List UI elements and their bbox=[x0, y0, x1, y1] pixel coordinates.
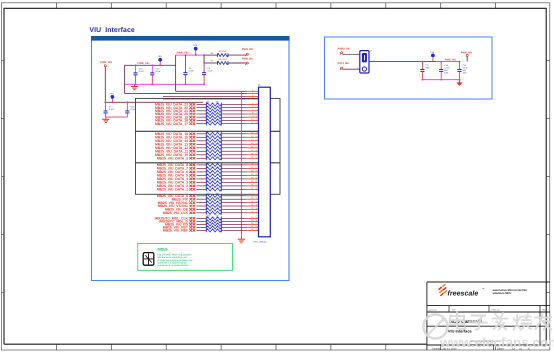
svg-text:FOLD-EDGE: Place bulk jumpers: FOLD-EDGE: Place bulk jumpers bbox=[157, 254, 192, 257]
resistor RN5.2 bbox=[206, 220, 221, 223]
resistor RN3.1 bbox=[206, 163, 221, 166]
capacitor C13 bbox=[151, 65, 153, 73]
resistor RN2.3 bbox=[206, 139, 221, 142]
net mark bbox=[189, 195, 195, 197]
wire bbox=[197, 123, 207, 125]
svg-text:PWR3_BK: PWR3_BK bbox=[338, 48, 350, 51]
net mark bbox=[189, 201, 195, 203]
wire bbox=[197, 181, 207, 183]
pin 13 bbox=[247, 136, 259, 138]
wire bbox=[197, 110, 207, 112]
pin 22 bbox=[247, 171, 259, 173]
wire bbox=[124, 65, 126, 93]
pin 21 bbox=[247, 167, 259, 169]
svg-text:0R0/2512: 0R0/2512 bbox=[219, 50, 229, 53]
wire (to connector pin 2) bbox=[125, 92, 247, 94]
wire bbox=[221, 116, 247, 118]
pin 9 bbox=[247, 116, 259, 118]
note box bbox=[138, 243, 233, 270]
wire bbox=[197, 198, 207, 200]
wire bbox=[221, 123, 247, 125]
capacitor C10 bbox=[126, 102, 128, 111]
resistor RN2.7 bbox=[206, 153, 221, 156]
pin 15 bbox=[247, 143, 259, 145]
svg-text:™: ™ bbox=[482, 287, 485, 291]
resistor RN4.6 bbox=[206, 211, 221, 214]
wire pin3 bbox=[163, 95, 247, 97]
capacitor C14 bbox=[440, 62, 442, 70]
wire bbox=[176, 54, 205, 56]
svg-text:2: 2 bbox=[357, 67, 358, 70]
title block frame bbox=[426, 282, 428, 350]
DNP icon bbox=[143, 253, 154, 266]
wire bbox=[221, 226, 247, 228]
pin 20 bbox=[247, 164, 259, 166]
wire bbox=[466, 56, 468, 61]
svg-text:0.1uF: 0.1uF bbox=[156, 70, 162, 73]
pin 35 bbox=[247, 220, 259, 222]
svg-text:approvals: approvals bbox=[429, 308, 437, 311]
svg-text:maintained in a square fashion: maintained in a square fashion. bbox=[157, 264, 189, 267]
wire branch2 bbox=[203, 55, 205, 63]
wire bbox=[197, 154, 207, 156]
resistor RN3.2 bbox=[206, 167, 221, 170]
pin 18 bbox=[247, 154, 259, 156]
resistor RN2.2 bbox=[206, 136, 221, 139]
resistor RN1.5 bbox=[206, 116, 221, 119]
pin 3 stub bbox=[247, 95, 259, 97]
net mark bbox=[189, 140, 195, 142]
pin 36 bbox=[247, 223, 259, 225]
wire bbox=[197, 133, 207, 135]
test point TP3 bbox=[111, 99, 113, 103]
wire bbox=[197, 113, 207, 115]
svg-text:MB25_PIX_CLK: MB25_PIX_CLK bbox=[163, 211, 189, 215]
wire bbox=[197, 150, 207, 152]
wire bbox=[197, 116, 207, 118]
wire bbox=[221, 140, 247, 142]
resistor RN2.1 bbox=[206, 132, 221, 135]
resistor RN3.3 bbox=[206, 170, 221, 173]
net mark bbox=[189, 150, 195, 152]
resistor RN1.6 bbox=[206, 119, 221, 122]
wire bbox=[221, 229, 247, 231]
pin 37 bbox=[247, 226, 259, 228]
wire bbox=[221, 157, 247, 159]
wire bbox=[221, 185, 247, 187]
wire gnd rail bbox=[422, 79, 459, 81]
wire bbox=[221, 167, 247, 169]
block border box2 bbox=[325, 37, 493, 99]
net mark bbox=[189, 198, 195, 200]
pin 7 bbox=[247, 110, 259, 112]
wire bbox=[197, 195, 207, 197]
block border box1 bbox=[92, 37, 290, 281]
wire bbox=[221, 150, 247, 152]
wire bbox=[221, 198, 247, 200]
pin 33 bbox=[247, 212, 259, 214]
svg-text:0.1uF: 0.1uF bbox=[189, 70, 195, 73]
freescale logo bbox=[439, 285, 446, 296]
wire bbox=[221, 205, 247, 207]
wire bbox=[197, 205, 207, 207]
net mark bbox=[189, 143, 195, 145]
wire bbox=[197, 140, 207, 142]
resistor RN1.2 bbox=[206, 106, 221, 109]
svg-text:hardware in a square fashion: hardware in a square fashion bbox=[157, 261, 187, 264]
net mark bbox=[189, 188, 195, 190]
svg-text:TBD: TBD bbox=[425, 66, 430, 69]
wire bbox=[221, 133, 247, 135]
capacitor C12 bbox=[135, 65, 137, 73]
wire bbox=[221, 147, 247, 149]
ground bbox=[134, 84, 136, 86]
net mark bbox=[189, 226, 195, 228]
net mark bbox=[189, 229, 195, 231]
svg-text:www.elecfans.com: www.elecfans.com bbox=[439, 335, 554, 350]
net mark bbox=[189, 217, 195, 219]
wire bbox=[197, 103, 207, 105]
wire bbox=[197, 164, 207, 166]
resistor RN1.4 bbox=[206, 112, 221, 115]
wire bbox=[221, 103, 247, 105]
wire gnd rail bbox=[125, 83, 205, 85]
wire bbox=[197, 188, 207, 190]
pin 31 bbox=[247, 205, 259, 207]
net mark bbox=[189, 106, 195, 108]
resistor RN1.1 bbox=[206, 103, 221, 106]
wire bbox=[221, 208, 247, 210]
wire pin4 bbox=[163, 98, 247, 100]
capacitor C7 bbox=[105, 102, 107, 111]
pin 38 bbox=[247, 229, 259, 231]
wire bbox=[197, 217, 207, 219]
svg-text:P3C3_BK: P3C3_BK bbox=[338, 62, 349, 65]
pin 28 bbox=[247, 195, 259, 197]
capacitor C9 bbox=[203, 55, 205, 73]
wire bbox=[197, 107, 207, 109]
wire bbox=[197, 229, 207, 231]
wire bbox=[104, 67, 106, 103]
test point TP6 bbox=[159, 62, 161, 66]
resistor RN5.5 bbox=[206, 229, 221, 232]
net mark bbox=[189, 103, 195, 105]
wire bbox=[197, 171, 207, 173]
wire bbox=[197, 178, 207, 180]
group box 1 bbox=[136, 98, 281, 131]
svg-text:0.1uF: 0.1uF bbox=[207, 70, 213, 73]
watermark bbox=[424, 313, 554, 350]
pin 11 bbox=[247, 123, 259, 125]
wire bbox=[221, 202, 247, 204]
ground bbox=[105, 117, 107, 119]
wire bbox=[197, 143, 207, 145]
resistor RN5.1 bbox=[206, 217, 221, 220]
ground (connector) bbox=[238, 238, 245, 240]
resistor RN2.8 bbox=[206, 157, 221, 160]
net mark bbox=[189, 110, 195, 112]
pin 25 bbox=[247, 181, 259, 183]
pin 27 bbox=[247, 188, 259, 190]
pin 29 bbox=[247, 198, 259, 200]
wire bbox=[369, 61, 436, 63]
resistor RN1.7 bbox=[206, 122, 221, 125]
pin 5 bbox=[247, 103, 259, 105]
capacitor C8 bbox=[184, 55, 186, 73]
wire bbox=[221, 174, 247, 176]
node PWR_BK (top) bbox=[246, 53, 248, 55]
resistor RN5.4 bbox=[206, 226, 221, 229]
pin 19 bbox=[247, 157, 259, 159]
wire bbox=[221, 212, 247, 214]
svg-text:PWR_VIU: PWR_VIU bbox=[445, 58, 457, 61]
svg-text:PWR_VIU: PWR_VIU bbox=[461, 52, 473, 55]
wire bbox=[175, 55, 177, 91]
wire bbox=[125, 64, 176, 66]
wire bbox=[197, 147, 207, 149]
resistor RN4.4 bbox=[206, 204, 221, 207]
resistor RN2.6 bbox=[206, 150, 221, 153]
svg-text:date: date bbox=[452, 308, 456, 311]
wire bbox=[221, 220, 247, 222]
svg-text:solutions MCU: solutions MCU bbox=[493, 292, 512, 295]
net mark bbox=[189, 167, 195, 169]
svg-text:MB25_VIU_REF: MB25_VIU_REF bbox=[163, 229, 188, 233]
net mark bbox=[189, 136, 195, 138]
wire bbox=[221, 113, 247, 115]
pin 1 stub bbox=[247, 90, 259, 92]
wire bbox=[343, 54, 360, 56]
net mark bbox=[189, 119, 195, 121]
pin 16 bbox=[247, 147, 259, 149]
resistor RN4.3 bbox=[206, 201, 221, 204]
wire bbox=[106, 116, 128, 118]
net mark bbox=[189, 116, 195, 118]
pin 6 bbox=[247, 107, 259, 109]
svg-text:CON_TAB5X2: CON_TAB5X2 bbox=[253, 240, 267, 243]
svg-text:VIU Interface: VIU Interface bbox=[89, 27, 135, 34]
resistor RN4.5 bbox=[206, 208, 221, 211]
resistor RN3.8 bbox=[206, 188, 221, 191]
wire gnd column bbox=[240, 91, 242, 224]
wire bbox=[228, 62, 246, 64]
pin 8 bbox=[247, 113, 259, 115]
wire rail bbox=[105, 101, 203, 103]
svg-text:10%: 10% bbox=[444, 71, 448, 74]
group box 2 bbox=[136, 131, 281, 163]
svg-text:0.1uF: 0.1uF bbox=[139, 70, 145, 73]
wire bbox=[197, 167, 207, 169]
svg-text:PWR_VIU: PWR_VIU bbox=[100, 61, 112, 64]
wire bbox=[221, 217, 247, 219]
group box 3 bbox=[136, 163, 281, 195]
wire bbox=[221, 181, 247, 183]
svg-text:1: 1 bbox=[357, 52, 358, 55]
wire bbox=[221, 223, 247, 225]
wire bbox=[197, 220, 207, 222]
svg-text:PWR_VIU: PWR_VIU bbox=[177, 52, 189, 55]
test point TP4 bbox=[432, 57, 434, 61]
node PWR_BK (second) bbox=[246, 62, 248, 64]
svg-text:provide same as/pop between th: provide same as/pop between that bbox=[157, 259, 192, 262]
svg-text:10%: 10% bbox=[463, 71, 467, 74]
pin 12 bbox=[247, 133, 259, 135]
jumper J4 bbox=[360, 51, 369, 73]
net mark bbox=[189, 205, 195, 207]
svg-text:DWG NO: DWG NO bbox=[492, 308, 501, 311]
svg-text:freescale: freescale bbox=[448, 290, 479, 298]
wire bbox=[197, 226, 207, 228]
wire bbox=[197, 202, 207, 204]
wire bbox=[197, 223, 207, 225]
pin 30 bbox=[247, 202, 259, 204]
net mark bbox=[189, 223, 195, 225]
wire bbox=[221, 171, 247, 173]
net mark bbox=[189, 174, 195, 176]
capacitor C15 bbox=[459, 62, 461, 70]
wire bbox=[221, 195, 247, 197]
net mark bbox=[189, 154, 195, 156]
resistor RN1.3 bbox=[206, 109, 221, 112]
wire bbox=[221, 136, 247, 138]
wire bbox=[197, 119, 207, 121]
net mark bbox=[189, 122, 195, 124]
resistor RN4.2 bbox=[206, 198, 221, 201]
wire bbox=[228, 54, 246, 56]
wire bbox=[197, 174, 207, 176]
resistor RN3.5 bbox=[206, 177, 221, 180]
pin 10 bbox=[247, 119, 259, 121]
net mark bbox=[189, 147, 195, 149]
resistor RN3.6 bbox=[206, 181, 221, 184]
wire bbox=[221, 107, 247, 109]
net mark bbox=[189, 157, 195, 159]
wire bbox=[221, 154, 247, 156]
resistor RN2.4 bbox=[206, 143, 221, 146]
wire bbox=[197, 185, 207, 187]
pin 24 bbox=[247, 178, 259, 180]
svg-text:PWR_BK: PWR_BK bbox=[242, 48, 253, 51]
net mark bbox=[189, 185, 195, 187]
ground (box2) bbox=[459, 80, 461, 83]
net mark bbox=[189, 181, 195, 183]
pin 2 stub bbox=[247, 92, 259, 94]
wire bbox=[221, 110, 247, 112]
resistor RN5.3 bbox=[206, 223, 221, 226]
wire bbox=[221, 178, 247, 180]
test point TP9 bbox=[195, 50, 197, 55]
net mark bbox=[189, 113, 195, 115]
wire bbox=[197, 208, 207, 210]
wire bbox=[197, 157, 207, 159]
resistor RN4.1 bbox=[206, 194, 221, 197]
svg-text:MB25_VIU_DATA_1: MB25_VIU_DATA_1 bbox=[157, 188, 188, 192]
wire bbox=[197, 136, 207, 138]
pin 26 bbox=[247, 185, 259, 187]
pin 34 bbox=[247, 217, 259, 219]
wire bbox=[221, 164, 247, 166]
net mark bbox=[189, 164, 195, 166]
pin 4 stub bbox=[247, 98, 259, 100]
net mark bbox=[189, 171, 195, 173]
svg-text:with the same orientation and: with the same orientation and bbox=[157, 256, 188, 259]
svg-text:0.1uF: 0.1uF bbox=[109, 108, 115, 111]
wire bbox=[221, 143, 247, 145]
svg-text:PWR_BK: PWR_BK bbox=[242, 57, 253, 60]
capacitor C17 bbox=[421, 62, 423, 70]
svg-text:0R0/2512: 0R0/2512 bbox=[219, 58, 229, 61]
svg-text:MB25_VIU_DATA_9: MB25_VIU_DATA_9 bbox=[157, 156, 188, 160]
wire (to connector pin 1) bbox=[176, 90, 247, 92]
wire bbox=[221, 188, 247, 190]
wire bbox=[343, 68, 360, 70]
resistor RN3.7 bbox=[206, 184, 221, 187]
wire bbox=[197, 212, 207, 214]
resistor RN3.4 bbox=[206, 174, 221, 177]
wire bbox=[221, 119, 247, 121]
pin 14 bbox=[247, 140, 259, 142]
net mark bbox=[189, 208, 195, 210]
pin 32 bbox=[247, 208, 259, 210]
net mark bbox=[189, 212, 195, 214]
svg-text:PWR_VIU: PWR_VIU bbox=[138, 62, 150, 65]
net mark bbox=[189, 220, 195, 222]
resistor RN2.5 bbox=[206, 146, 221, 149]
net mark bbox=[189, 133, 195, 135]
pin 23 bbox=[247, 174, 259, 176]
net mark bbox=[189, 178, 195, 180]
svg-text:MB25_VIU_DATA_17: MB25_VIU_DATA_17 bbox=[155, 122, 188, 126]
pin 17 bbox=[247, 150, 259, 152]
